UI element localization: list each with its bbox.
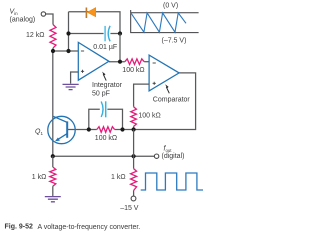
resistor 1 kΩ left bbox=[50, 167, 56, 186]
svg-text:Fig. 9-52: Fig. 9-52 bbox=[5, 224, 34, 231]
junction dot block left bbox=[87, 127, 91, 131]
transistor Q1 bbox=[48, 116, 75, 144]
wire diode branch top bbox=[69, 12, 121, 34]
resistor 12 kΩ bbox=[50, 25, 56, 49]
label (0 V) bbox=[163, 2, 178, 9]
label fout (digital) bbox=[162, 145, 185, 160]
resistor 1 kΩ right bbox=[131, 169, 137, 191]
label 0.01 µF bbox=[93, 44, 117, 51]
junction dot integrator output bbox=[118, 60, 122, 64]
capacitor 0.01 uF bbox=[105, 26, 110, 42]
label Comparator with arrow bbox=[153, 84, 191, 103]
label 12 kΩ bbox=[26, 32, 44, 39]
label Q1 bbox=[35, 129, 43, 136]
waveform sawtooth frame bbox=[130, 10, 198, 33]
diode D feedback bbox=[86, 8, 95, 19]
junction dot feedback-inverting bbox=[66, 49, 70, 53]
capacitor 50 pF bbox=[101, 101, 106, 117]
wire feedback line to parallel block bbox=[89, 129, 134, 131]
wire comparator + input bbox=[134, 84, 150, 107]
wire 12k bottom to node bbox=[52, 48, 54, 51]
svg-text:(digital): (digital) bbox=[162, 153, 185, 160]
label Integrator with arrow bbox=[92, 72, 123, 89]
svg-text:Vin: Vin bbox=[10, 9, 19, 16]
label Vin (analog) bbox=[10, 9, 36, 24]
wire 1k left to ground bbox=[52, 186, 54, 196]
svg-text:A voltage-to-frequency convert: A voltage-to-frequency converter. bbox=[38, 224, 141, 231]
junction dot cap branch left bbox=[66, 31, 70, 35]
resistor 100 kΩ horizontal bbox=[125, 59, 149, 65]
wire base line to transistor bbox=[67, 129, 89, 131]
terminal -15V bbox=[131, 196, 136, 201]
op-amp U1 integrator bbox=[78, 42, 109, 80]
ground (integrator + input) bbox=[63, 84, 79, 89]
junction dot feedback node bbox=[132, 127, 136, 131]
junction dot cap branch right bbox=[118, 31, 122, 35]
svg-text:100 kΩ: 100 kΩ bbox=[95, 135, 117, 142]
svg-text:1 kΩ: 1 kΩ bbox=[32, 174, 47, 181]
junction dot fout node bbox=[132, 154, 136, 158]
wire rail to 1k left bbox=[52, 156, 54, 167]
resistor 100 kΩ in base line bbox=[97, 127, 115, 133]
wire fout node to 1k right bbox=[133, 156, 135, 168]
wire 1k right to -15V terminal bbox=[133, 191, 135, 197]
junction dot 12k node bbox=[51, 49, 55, 53]
label 1 kΩ right bbox=[111, 174, 126, 181]
label (-7.5 V) bbox=[162, 38, 187, 45]
wire comparator output feedback loop bbox=[134, 73, 196, 130]
label 100 kΩ bbox=[95, 135, 117, 142]
label 50 pF bbox=[92, 91, 110, 98]
wire capacitor branch bbox=[69, 33, 121, 35]
output terminal fout bbox=[154, 154, 158, 158]
wire feedback to output node bbox=[119, 34, 121, 62]
svg-text:fout: fout bbox=[164, 145, 173, 152]
svg-text:(analog): (analog) bbox=[10, 17, 36, 24]
op-amp U2 comparator bbox=[149, 55, 179, 91]
wire capacitor 50pF branch bbox=[89, 109, 123, 129]
svg-text:Integrator: Integrator bbox=[92, 82, 123, 89]
svg-text:Q1: Q1 bbox=[35, 129, 43, 136]
svg-text:100 kΩ: 100 kΩ bbox=[122, 67, 144, 74]
svg-text:100 kΩ: 100 kΩ bbox=[138, 112, 160, 119]
wire fout line bbox=[53, 155, 155, 157]
caption Fig. 9-52 bbox=[5, 224, 141, 231]
wire inverting input line bbox=[53, 50, 78, 52]
wire integrator output bbox=[109, 61, 125, 63]
ground (emitter resistor) bbox=[45, 197, 61, 202]
resistor 100 kΩ hysteresis vertical bbox=[131, 107, 137, 130]
svg-text:(–7.5 V): (–7.5 V) bbox=[162, 38, 187, 45]
svg-text:0.01 µF: 0.01 µF bbox=[93, 44, 117, 51]
svg-text:(0 V): (0 V) bbox=[163, 2, 178, 9]
label 1 kΩ left bbox=[32, 174, 47, 181]
label 100 kΩ bbox=[122, 67, 144, 74]
input terminal Vin bbox=[41, 12, 45, 16]
junction dot block right bbox=[120, 127, 124, 131]
svg-text:50 pF: 50 pF bbox=[92, 91, 110, 98]
wire vertical feedback to fout node bbox=[133, 130, 135, 157]
wire noninverting input to ground bbox=[71, 72, 79, 84]
junction dot emitter rail bbox=[51, 154, 55, 158]
svg-text:12 kΩ: 12 kΩ bbox=[26, 32, 44, 39]
label -15 V bbox=[120, 205, 139, 212]
label 100 kΩ bbox=[138, 112, 160, 119]
wire Vin terminal to 12k resistor top bbox=[46, 14, 53, 25]
svg-text:–15 V: –15 V bbox=[120, 205, 139, 212]
waveform sawtooth trace bbox=[131, 13, 186, 32]
wire left rail (collector-emitter rail) bbox=[52, 51, 54, 156]
svg-text:Comparator: Comparator bbox=[153, 96, 191, 103]
svg-text:1 kΩ: 1 kΩ bbox=[111, 174, 126, 181]
wire feedback left vertical bbox=[68, 12, 70, 51]
waveform square wave output bbox=[141, 173, 203, 190]
